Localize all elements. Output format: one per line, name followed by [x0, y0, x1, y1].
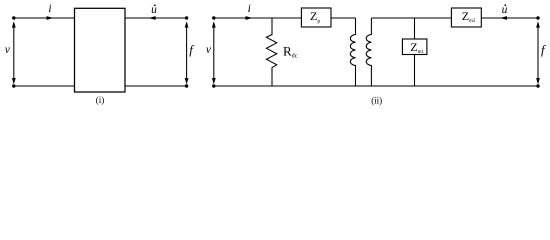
- wire: secondary top wire to Zm2: [371, 17, 451, 19]
- wire: fig (i) bottom-left horizontal: [14, 85, 75, 87]
- node: figure (i) top-left terminal: [12, 16, 15, 19]
- wire: fig (ii) top wire left segment: [214, 17, 302, 19]
- node: figure (i) top-right terminal: [185, 16, 188, 19]
- transformer primary winding: [350, 18, 355, 86]
- node: figure (ii) bottom-right terminal: [536, 84, 539, 87]
- svg-text:Zp: Zp: [310, 9, 320, 24]
- arrow: current u (fig i, pointing left): [149, 16, 156, 20]
- voltage arrow v (fig ii, double-headed): [212, 21, 216, 84]
- wire: Zm1 branch lower: [414, 55, 416, 87]
- svg-text:f: f: [189, 42, 195, 57]
- wire: fig (i) top-right horizontal: [125, 17, 187, 19]
- wire: fig (i) bottom-right horizontal: [125, 85, 187, 87]
- wire: fig (i) top-left horizontal: [14, 17, 75, 19]
- svg-text:i: i: [248, 3, 251, 15]
- svg-text:(i): (i): [96, 95, 105, 105]
- node: figure (i) bottom-right terminal: [185, 84, 188, 87]
- svg-text:Zm1: Zm1: [410, 40, 424, 55]
- arrow: current i (fig ii): [246, 16, 253, 20]
- node: figure (ii) bottom-left terminal: [212, 84, 215, 87]
- svg-text:v: v: [5, 44, 11, 56]
- arrow: current i (fig i): [47, 16, 54, 20]
- force arrow f (fig i, double-headed): [185, 21, 189, 84]
- two-port network box (fig i): [75, 8, 126, 92]
- arrow: current u (fig ii, pointing left): [500, 16, 507, 20]
- wire: Zm2 to right terminal: [481, 17, 538, 19]
- node: figure (i) bottom-left terminal: [12, 84, 15, 87]
- force arrow f (fig ii, double-headed): [536, 21, 540, 84]
- transformer secondary winding: [366, 18, 371, 86]
- svg-text:v: v: [206, 44, 212, 56]
- wire: fig (ii) bottom wire: [214, 85, 538, 87]
- impedance Zm2 box: [451, 8, 481, 27]
- node: figure (ii) top-left terminal: [212, 16, 215, 19]
- node: figure (ii) top-right terminal: [536, 16, 539, 19]
- wire: Zm1 branch upper: [414, 18, 416, 39]
- resistor Rdc (zigzag): [266, 18, 276, 86]
- svg-text:(ii): (ii): [371, 95, 382, 105]
- voltage arrow v (fig i, double-headed): [12, 21, 16, 84]
- impedance Zm1 box: [402, 39, 427, 55]
- impedance Zp box: [301, 8, 331, 27]
- svg-text:f: f: [541, 42, 547, 57]
- svg-text:Rdc: Rdc: [283, 43, 298, 59]
- svg-text:i: i: [48, 3, 51, 15]
- svg-text:Zm2: Zm2: [462, 9, 476, 24]
- wire: Zp to transformer: [331, 17, 356, 19]
